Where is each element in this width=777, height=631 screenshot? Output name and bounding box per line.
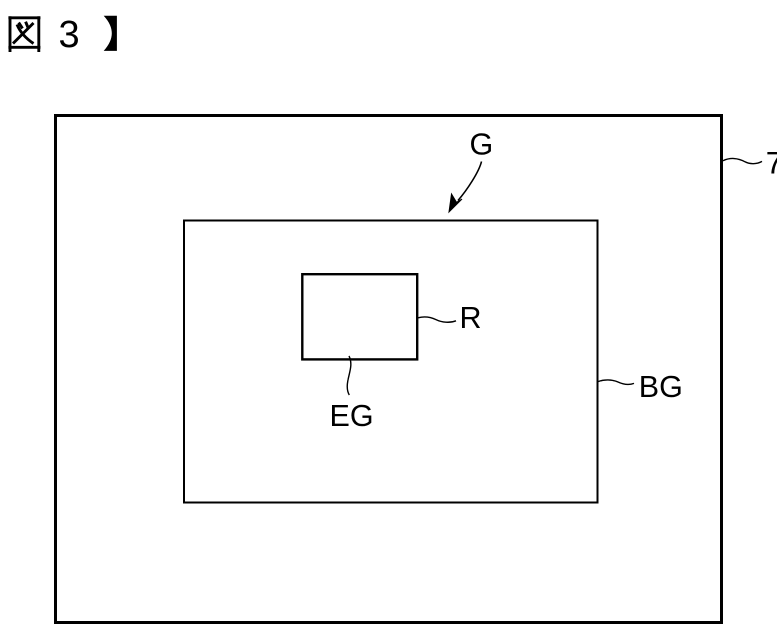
leader squiggle to R: [418, 317, 456, 322]
leader line to EG: [347, 356, 351, 395]
arrowhead: [449, 194, 462, 212]
svg-text:G: G: [470, 127, 494, 161]
svg-text:EG: EG: [330, 399, 374, 433]
small rectangle EG: [302, 274, 417, 359]
leader squiggle to 7: [723, 158, 762, 163]
caption glyph 図 (drawn): [8, 16, 40, 52]
svg-text:R: R: [460, 301, 482, 335]
leader squiggle to BG: [598, 380, 634, 385]
inner rectangle BG: [184, 221, 598, 503]
svg-text:3: 3: [59, 14, 80, 56]
svg-text:BG: BG: [639, 370, 683, 404]
arrow from G to inner rectangle: [458, 162, 482, 201]
caption glyph 】 (drawn): [104, 16, 117, 51]
outer rectangle 7: [56, 116, 722, 623]
svg-text:7: 7: [766, 144, 777, 180]
